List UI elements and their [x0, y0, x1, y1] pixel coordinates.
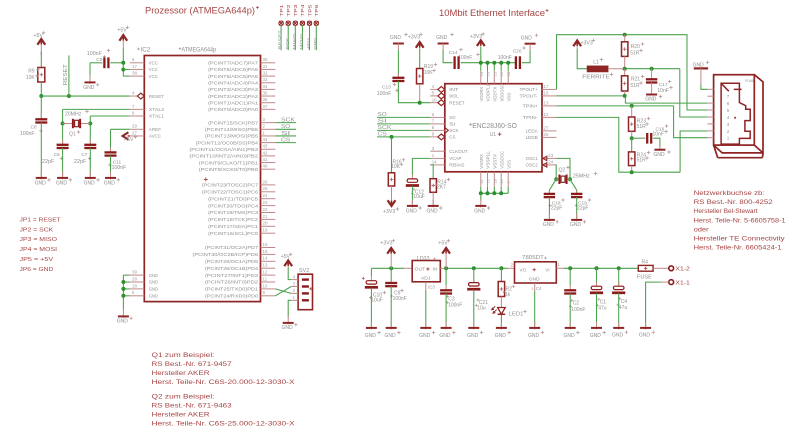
- svg-text:GND: GND: [149, 287, 158, 292]
- supply +3V3 below R16: [391, 186, 393, 197]
- svg-text:(PCINT14/MISO)PB6: (PCINT14/MISO)PB6: [205, 127, 259, 132]
- capacitor C8: [40, 96, 42, 119]
- svg-text:GND: GND: [543, 222, 555, 228]
- net stub SCK at IC2: [275, 122, 296, 124]
- svg-text:(PCINT11/OC0A/AIN1)PB3: (PCINT11/OC0A/AIN1)PB3: [189, 147, 258, 152]
- U1 pin 25 VDDOSC: [500, 71, 502, 84]
- svg-text:+5V: +5V: [281, 254, 291, 260]
- svg-text:16: 16: [544, 91, 549, 96]
- junction GND pin 6: [121, 294, 125, 298]
- svg-text:22pF: 22pF: [551, 206, 562, 212]
- junction VDD bus: [492, 61, 496, 65]
- svg-text:16: 16: [263, 242, 268, 247]
- svg-text:6: 6: [727, 101, 730, 106]
- U1 pin 7 SI: [430, 123, 445, 125]
- capacitor C11 100nF: [110, 148, 112, 153]
- svg-text:R4: R4: [642, 260, 649, 266]
- junction R24 TPIN-: [630, 170, 634, 174]
- svg-text:(PCINT30/OC2B/ICP)PD6: (PCINT30/OC2B/ICP)PD6: [192, 252, 258, 257]
- svg-text:CS: CS: [281, 137, 291, 143]
- svg-text:Herst. Teile-Nr. C6S-20.000-12: Herst. Teile-Nr. C6S-20.000-12-3030-X: [152, 379, 296, 386]
- wire VSS stub: [507, 187, 509, 194]
- U1 pin 3 CLKOUT: [430, 150, 445, 152]
- svg-text:GND: GND: [84, 180, 96, 186]
- svg-text:18: 18: [132, 283, 137, 288]
- junction VCC pin17: [121, 67, 125, 71]
- svg-text:(PCINT25/TXD0)PD1: (PCINT25/TXD0)PD1: [205, 287, 259, 292]
- svg-text:VCC: VCC: [149, 74, 158, 79]
- IC2 pin 24 PC5: [261, 198, 276, 200]
- junction C2: [568, 266, 572, 270]
- junction CS / R16: [390, 135, 394, 139]
- svg-text:41: 41: [263, 157, 268, 162]
- svg-text:GND: GND: [104, 180, 116, 186]
- svg-text:20: 20: [486, 71, 491, 76]
- svg-text:15: 15: [263, 249, 268, 254]
- svg-text:GND: GND: [83, 85, 95, 91]
- svg-text:+3V3: +3V3: [383, 209, 395, 215]
- svg-text:Hersteller AKER: Hersteller AKER: [152, 412, 211, 419]
- wire VSS bus to ground: [480, 193, 482, 200]
- wire +3V3 to VDD bus: [480, 47, 482, 63]
- capacitor C16 10nF: [632, 137, 646, 139]
- resistor R14 2K7: [430, 179, 436, 193]
- ground below LED1: [500, 322, 502, 329]
- svg-text:OUT: OUT: [415, 267, 426, 272]
- svg-text:TP6: TP6: [314, 4, 319, 17]
- svg-text:(PCINT27/INT1)PD3: (PCINT27/INT1)PD3: [205, 273, 259, 278]
- wire +5V to R9: [40, 52, 42, 68]
- wire rail to jack pin 4: [680, 69, 708, 117]
- svg-text:100nF: 100nF: [87, 51, 103, 57]
- U1 pin 21 VSSPLL: [487, 172, 489, 187]
- svg-text:LD33: LD33: [417, 256, 430, 262]
- wire RBIAS to R14: [430, 165, 433, 179]
- IC2 pin 13 PD4: [261, 267, 276, 269]
- IC2 pin 2 PB6: [261, 128, 276, 130]
- svg-text:(PCINT29/OC1A)PD5: (PCINT29/OC1A)PD5: [205, 259, 259, 264]
- 7805 GND pin to ground: [534, 283, 536, 291]
- terminal X1-2: [669, 266, 674, 271]
- junction +3V3 / C9: [389, 266, 393, 270]
- ground below R14: [432, 200, 434, 207]
- supply +3V3 at regulator output: [387, 248, 395, 254]
- svg-text:VSSOSC: VSSOSC: [499, 151, 504, 169]
- svg-text:(PCINT9/CLKO/T1)PB1: (PCINT9/CLKO/T1)PB1: [199, 160, 259, 165]
- svg-text:10K: 10K: [424, 70, 434, 76]
- ground below C6: [62, 172, 64, 180]
- wire net SI to ENC28J60: [377, 123, 430, 125]
- jack pin 3: [707, 123, 713, 125]
- wire TPOUT+ net: [557, 35, 708, 110]
- inductor L1 FERRITE: [587, 66, 607, 71]
- wire TP1 net RESET: [280, 25, 282, 50]
- wire TPIN- net: [557, 117, 681, 172]
- junction C16 node: [630, 136, 634, 140]
- svg-text:(PCINT15/SCK)PB7: (PCINT15/SCK)PB7: [208, 120, 259, 125]
- IC2 pin 27 AVCC: [130, 135, 145, 137]
- IC2 pin 6 GND: [130, 295, 145, 297]
- IC2 pin 19 PC0: [261, 232, 276, 234]
- wire VDD stub: [487, 63, 489, 71]
- svg-text:LED1: LED1: [509, 312, 524, 318]
- svg-text:Herst. Teile-Nr. 6605424-1: Herst. Teile-Nr. 6605424-1: [694, 244, 783, 251]
- resistor R9: [38, 68, 45, 83]
- jack inner socket profile: [721, 83, 750, 144]
- IC IC2 ATMEGA644p body: [144, 56, 260, 302]
- wire OSC2 to crystal: [555, 165, 557, 179]
- svg-text:14: 14: [263, 256, 268, 261]
- IC2 pin 37 PA0: [261, 108, 276, 110]
- capacitor C20 100nF: [515, 56, 517, 69]
- U1 pin 12 TPIN-: [542, 116, 557, 118]
- svg-text:SO: SO: [449, 115, 456, 120]
- svg-text:TP5: TP5: [307, 4, 312, 17]
- wire VDD stub: [480, 63, 482, 71]
- U1 pin 9 CS: [430, 136, 438, 138]
- junction reset node: [39, 94, 43, 98]
- svg-text:U1: U1: [490, 132, 497, 138]
- IC2 pin 26 PC7: [261, 184, 276, 186]
- svg-text:13: 13: [263, 263, 268, 268]
- wire VDD stub: [507, 63, 509, 71]
- wire R19 to reset net: [419, 84, 421, 103]
- IC2 pin 31 PA6: [261, 68, 276, 70]
- IC2 pin 1 PB5: [261, 135, 276, 137]
- wire 5V rail: [440, 267, 445, 269]
- svg-text:(PCINT24/RXD0)PD0: (PCINT24/RXD0)PD0: [205, 294, 259, 299]
- U1 pin 4 INT: [430, 88, 438, 90]
- SV2 pin 2: [291, 292, 298, 294]
- wire PD1 TXD0 to SV2 pin 2: [275, 289, 291, 294]
- fuse R4: [637, 267, 639, 269]
- svg-text:(PCINT26/INT0)PD2: (PCINT26/INT0)PD2: [205, 280, 259, 285]
- svg-text:TPIN+: TPIN+: [523, 104, 539, 109]
- wire VDD stub: [500, 63, 502, 71]
- junction crystal left: [61, 122, 65, 126]
- svg-text:TP2: TP2: [286, 4, 291, 17]
- wire +5V to SV2 pin 4: [288, 267, 291, 280]
- svg-text:(PCINT10/INT2/AIN0)PB2: (PCINT10/INT2/AIN0)PB2: [189, 154, 258, 159]
- junction C4: [617, 266, 621, 270]
- U1 pin 6 SO: [430, 116, 445, 118]
- svg-text:10Mbit Ethernet Interface: 10Mbit Ethernet Interface: [439, 7, 545, 18]
- wire AREF to C11: [111, 128, 130, 130]
- svg-text:GND: GND: [570, 222, 582, 228]
- ground below C21: [473, 322, 475, 329]
- svg-text:10nF: 10nF: [657, 88, 668, 94]
- svg-text:VDDTX: VDDTX: [492, 87, 497, 102]
- IC2 pin 7 XTAL2: [130, 108, 145, 110]
- junction R19 reset net: [418, 101, 422, 105]
- LED LED1: [500, 297, 502, 308]
- svg-text:30: 30: [263, 57, 268, 62]
- wire C5 left to ground: [90, 62, 103, 64]
- ground below C11: [110, 172, 112, 180]
- terminal X1-1: [669, 280, 674, 285]
- svg-text:20: 20: [263, 221, 268, 226]
- capacitor C4 47u: [618, 268, 620, 286]
- U1 pin 14 RBIAS: [430, 164, 445, 166]
- IC2 pin 14 PD5: [261, 260, 276, 262]
- svg-text:10K: 10K: [391, 164, 401, 170]
- U1 pin 2 VSS: [507, 172, 509, 187]
- svg-text:GND: GND: [56, 180, 68, 186]
- IC2 pin 36 PA1: [261, 102, 276, 104]
- svg-text:GND: GND: [528, 333, 540, 339]
- svg-text:C2: C2: [573, 301, 580, 307]
- IC2 pin 15 PD6: [261, 253, 276, 255]
- U1 pin 19 VDDRX: [480, 71, 482, 84]
- svg-text:(PCINT3/ADC3)PA3: (PCINT3/ADC3)PA3: [208, 87, 259, 92]
- svg-text:GND: GND: [521, 36, 533, 42]
- svg-text:R21: R21: [631, 76, 640, 82]
- wire to VCC pin 38: [123, 75, 130, 77]
- svg-text:GND: GND: [474, 208, 486, 214]
- svg-text:TPIN-: TPIN-: [523, 115, 539, 120]
- svg-text:(PCINT13/MOSI)PB5: (PCINT13/MOSI)PB5: [205, 134, 259, 139]
- svg-text:TPOUT+: TPOUT+: [520, 87, 539, 92]
- svg-text:SCK: SCK: [281, 117, 295, 123]
- wire VSS stub: [500, 187, 502, 194]
- svg-text:VDDPLL: VDDPLL: [486, 83, 491, 101]
- svg-text:VSSTX: VSSTX: [492, 154, 497, 169]
- capacitor C2 100nF: [569, 268, 571, 285]
- junction Q2 left: [554, 177, 558, 181]
- svg-text:SCK: SCK: [449, 128, 458, 133]
- svg-text:X1-1: X1-1: [675, 281, 690, 287]
- svg-text:24: 24: [263, 193, 268, 198]
- svg-text:AVCC: AVCC: [149, 134, 161, 139]
- svg-text:28: 28: [132, 276, 137, 281]
- IC2 pin 10 PD1: [261, 288, 276, 290]
- IC2 pin 25 PC6: [261, 191, 276, 193]
- capacitor C10 10uF: [370, 276, 372, 280]
- svg-text:26: 26: [544, 132, 549, 137]
- resistor R19: [417, 69, 423, 84]
- wire C13 to reset net: [398, 81, 430, 103]
- svg-text:22: 22: [263, 207, 268, 212]
- U1 pin 20 VDDPLL: [487, 71, 489, 84]
- svg-text:JP6 = GND: JP6 = GND: [20, 267, 54, 273]
- svg-text:CLKOUT: CLKOUT: [449, 149, 468, 154]
- svg-text:25: 25: [263, 186, 268, 191]
- wire VCAP to C12: [412, 158, 430, 174]
- wire TPIN+ net: [557, 105, 674, 107]
- wire TPOUT- to jack pin 6: [625, 96, 708, 103]
- wire OSC1 to crystal: [557, 158, 571, 179]
- svg-text:GND: GND: [282, 325, 294, 331]
- junction R23 TPIN+: [630, 104, 634, 108]
- junction VSS bus: [479, 191, 483, 195]
- svg-text:47u: 47u: [598, 306, 607, 312]
- svg-text:19: 19: [479, 71, 484, 76]
- net stub CS at IC2: [275, 142, 296, 144]
- capacitor C21 10u: [473, 268, 475, 282]
- svg-text:GND: GND: [564, 333, 576, 339]
- svg-text:44: 44: [263, 137, 268, 142]
- IC2 pin 18 GND: [130, 288, 145, 290]
- svg-text:+3V3: +3V3: [380, 241, 392, 247]
- wire +3V3 to L1: [577, 49, 587, 69]
- svg-text:SI: SI: [449, 122, 455, 127]
- wire input rail: [556, 267, 563, 269]
- resistor R21: [624, 69, 626, 76]
- wire VSS stub: [480, 187, 482, 194]
- svg-text:27: 27: [544, 126, 549, 131]
- svg-text:51R: 51R: [637, 158, 647, 164]
- svg-text:21: 21: [263, 214, 268, 219]
- svg-text:+5V: +5V: [34, 33, 44, 39]
- svg-text:XTAL2: XTAL2: [149, 107, 165, 112]
- svg-text:C5: C5: [96, 57, 102, 63]
- junction GND pin 28: [121, 280, 125, 284]
- ground below C3: [445, 322, 447, 329]
- wire net CS to ENC28J60: [377, 136, 430, 138]
- svg-text:GND: GND: [590, 333, 602, 339]
- svg-text:23: 23: [548, 153, 553, 158]
- capacitor C17 10nF: [651, 69, 653, 80]
- junction R21 rail: [623, 67, 627, 71]
- crystal Q2 25MHz: [556, 178, 559, 180]
- IC2 pin 44 PB4: [261, 142, 276, 144]
- svg-text:L1: L1: [593, 59, 599, 65]
- jack pin 1: [707, 137, 713, 139]
- svg-text:GND: GND: [149, 294, 158, 299]
- IC2 pin 20 PC1: [261, 225, 276, 227]
- junction RESET label wire: [67, 94, 71, 98]
- svg-text:RS Best.-Nr. 671-9463: RS Best.-Nr. 671-9463: [152, 403, 233, 410]
- svg-text:28: 28: [506, 71, 511, 76]
- svg-text:+5V: +5V: [117, 27, 127, 33]
- supply +5V at LD33 input: [442, 248, 450, 254]
- capacitor C1 47u: [596, 268, 598, 286]
- svg-text:Herst. Teile-Nr. C6S-25.000-12: Herst. Teile-Nr. C6S-25.000-12-3030-X: [152, 421, 296, 428]
- IC2 pin 22 PC3: [261, 212, 276, 214]
- svg-text:10uF: 10uF: [371, 298, 382, 304]
- svg-text:ENC28J60-SO: ENC28J60-SO: [472, 123, 517, 130]
- svg-text:IC2: IC2: [141, 47, 151, 54]
- svg-text:100nF: 100nF: [393, 296, 407, 302]
- svg-text:25: 25: [499, 71, 504, 76]
- svg-text:18: 18: [492, 178, 497, 183]
- svg-text:RESET: RESET: [63, 64, 69, 85]
- svg-text:GND: GND: [436, 35, 448, 41]
- svg-text:FERRITE: FERRITE: [582, 75, 610, 81]
- svg-text:CS: CS: [378, 132, 388, 138]
- junction crystal right: [88, 122, 92, 126]
- svg-text:(PCINT4/ADC4)PA4: (PCINT4/ADC4)PA4: [208, 80, 259, 85]
- wire XTAL1 to crystal: [90, 115, 130, 117]
- svg-text:47u: 47u: [619, 305, 628, 311]
- svg-text:10: 10: [432, 97, 437, 102]
- svg-text:23: 23: [263, 200, 268, 205]
- junction GND pin 18: [121, 287, 125, 291]
- ground below C9: [390, 322, 392, 329]
- svg-text:+3V3: +3V3: [470, 34, 482, 40]
- svg-text:C4: C4: [621, 299, 628, 305]
- capacitor C9 100nF: [390, 268, 392, 283]
- svg-text:Q2 zum Beispiel:: Q2 zum Beispiel:: [152, 394, 215, 401]
- IC2 pin 17 VCC: [130, 68, 145, 70]
- svg-text:Herst. Teile-Nr. 5-6605758-1: Herst. Teile-Nr. 5-6605758-1: [694, 217, 787, 224]
- U1 pin 18 VSSTX: [493, 172, 495, 187]
- svg-text:CS: CS: [449, 135, 455, 140]
- svg-text:IN: IN: [433, 267, 438, 272]
- svg-text:SCK: SCK: [378, 125, 392, 131]
- svg-text:RS Best.-Nr. 800-4252: RS Best.-Nr. 800-4252: [694, 199, 774, 206]
- svg-text:51R: 51R: [630, 83, 640, 89]
- svg-text:VSS: VSS: [506, 160, 511, 169]
- supply +5V arrow at AVCC: [128, 135, 130, 137]
- jack pin 5: [707, 109, 713, 111]
- svg-text:21: 21: [486, 178, 491, 183]
- U1 pin 27 LEDA: [542, 130, 557, 132]
- jack pin 8: [707, 88, 713, 90]
- svg-text:+5V: +5V: [306, 37, 311, 50]
- svg-text:33: 33: [263, 77, 268, 82]
- wire C5 right to +5V node: [110, 62, 123, 64]
- IC2 pin 11 PD2: [261, 281, 276, 283]
- ground below C16: [659, 147, 661, 150]
- U1 pin 5 WOL: [430, 95, 438, 97]
- junction C21: [472, 266, 476, 270]
- svg-text:13: 13: [544, 101, 549, 106]
- svg-text:42: 42: [263, 150, 268, 155]
- jack pin 7: [707, 95, 713, 97]
- junction VDD bus: [506, 61, 510, 65]
- ground below C17: [651, 83, 653, 95]
- jack pin 4: [707, 116, 713, 118]
- svg-text:(PCINT8/XCK0/T0)PB0: (PCINT8/XCK0/T0)PB0: [199, 167, 259, 172]
- wire TP4 net MOSI: [301, 25, 303, 50]
- svg-text:C7: C7: [81, 152, 87, 158]
- IC2 pin 43 PB3: [261, 148, 276, 150]
- ground below IC2: [122, 309, 124, 318]
- svg-text:22pF: 22pF: [74, 159, 87, 165]
- svg-text:RBIAS: RBIAS: [449, 163, 464, 168]
- IC2 pin 28 GND: [130, 281, 145, 283]
- svg-text:22: 22: [499, 178, 504, 183]
- U1 pin 10 RESET: [430, 102, 438, 104]
- svg-text:43: 43: [263, 144, 268, 149]
- svg-text:LEDB: LEDB: [526, 135, 538, 140]
- wire GND pins bus: [123, 274, 129, 276]
- junction VSS bus: [499, 191, 503, 195]
- svg-text:+3V3: +3V3: [581, 40, 593, 46]
- svg-text:GND: GND: [117, 319, 129, 325]
- resistor R23: [631, 106, 633, 117]
- svg-text:C6: C6: [54, 152, 60, 158]
- svg-text:GND: GND: [390, 35, 402, 41]
- svg-text:100nF: 100nF: [20, 131, 35, 137]
- wire +5V down to VCC pins: [122, 49, 124, 77]
- junction VDD bus: [499, 61, 503, 65]
- capacitor C6 22pF: [62, 124, 64, 145]
- svg-text:C3: C3: [429, 284, 435, 289]
- svg-text:25MHz: 25MHz: [573, 174, 590, 180]
- connector SV2: [298, 274, 312, 310]
- ground below C10: [370, 322, 372, 329]
- svg-text:(PCINT18/TCK)PC2: (PCINT18/TCK)PC2: [208, 217, 259, 222]
- connector X2 RJ45 jack body: [714, 75, 755, 145]
- svg-text:GND: GND: [639, 333, 651, 339]
- svg-text:4: 4: [727, 115, 730, 120]
- wire TP6 net GND: [315, 25, 317, 50]
- IC2 pin 32 PA5: [261, 75, 276, 77]
- svg-text:17: 17: [544, 84, 549, 89]
- svg-text:(PCINT6/ADC6)PA6: (PCINT6/ADC6)PA6: [208, 67, 259, 72]
